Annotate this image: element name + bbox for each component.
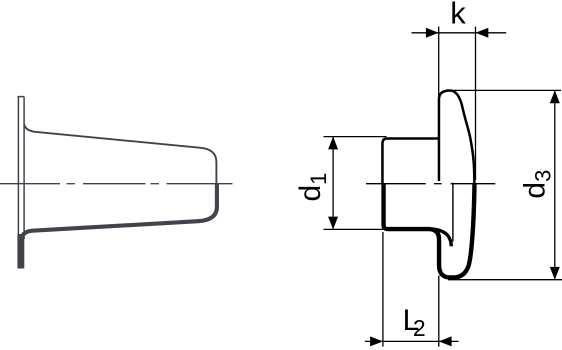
dimension line k <box>412 32 507 34</box>
arrowhead d1 top <box>328 137 338 150</box>
extension line d3 top <box>452 89 561 91</box>
svg-text:k: k <box>450 0 466 30</box>
svg-text:L2: L2 <box>403 304 426 341</box>
arrowhead d3 top <box>550 90 560 103</box>
extension line L2 right <box>438 276 440 347</box>
center line (left view) <box>0 183 233 185</box>
extension line d1 top <box>324 136 387 138</box>
svg-text:d3: d3 <box>519 170 556 199</box>
extension line d3 bottom <box>448 279 562 281</box>
arrowhead d1 bottom <box>328 217 338 230</box>
arrowhead k left <box>426 28 439 38</box>
extension line k right <box>475 27 477 180</box>
extension line k left <box>438 27 440 96</box>
flange section fill (solid black thin-section) <box>17 234 24 269</box>
head face, dome top and convex face (right view, upper half) <box>439 91 474 184</box>
arrowhead L2 right <box>439 336 452 346</box>
arrowhead d3 bottom <box>550 267 560 280</box>
shank top contour (left view) <box>24 124 216 184</box>
svg-text:d1: d1 <box>294 173 331 202</box>
dimension line d1 <box>332 137 334 230</box>
curled tube end in section <box>432 229 451 246</box>
arrowhead k right <box>476 28 489 38</box>
shank bottom wall, rolled-over end and head underside in section <box>384 184 475 278</box>
shank top and left outline (right view) <box>382 138 440 183</box>
dimension line L2 <box>365 340 459 342</box>
dimension line d3 <box>554 90 556 279</box>
arrowhead L2 left <box>370 336 383 346</box>
rivet head flange outline (left view) <box>18 97 25 247</box>
bore inner edge line <box>452 183 454 242</box>
extension line L2 left <box>382 232 384 347</box>
shank bottom wall in section (left view) <box>21 184 217 267</box>
center line (right view) <box>366 183 495 185</box>
extension line d1 bottom <box>324 228 384 230</box>
